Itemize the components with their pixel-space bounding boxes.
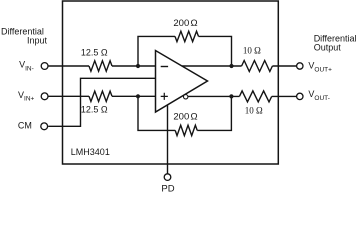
svg-text:VIN-: VIN- (19, 60, 34, 73)
svg-text:LMH3401: LMH3401 (71, 147, 110, 157)
svg-text:VOUT-: VOUT- (308, 89, 330, 102)
svg-text:12.5 Ω: 12.5 Ω (81, 48, 108, 58)
wire VIN+ input to R2 (48, 95, 89, 97)
svg-text:PD: PD (161, 183, 174, 194)
resistor R3 200 ohm (upper feedback) (175, 31, 199, 41)
wire VIN- input to R1 (48, 65, 89, 67)
svg-text:CM: CM (18, 120, 32, 130)
op-amp U1 fully differential amplifier triangle (156, 51, 208, 113)
resistor R2 12.5 ohm (lower input) (89, 91, 112, 101)
svg-text:VOUT+: VOUT+ (308, 61, 332, 74)
svg-text:VIN+: VIN+ (18, 90, 35, 103)
terminal VOUT+ (297, 63, 303, 69)
terminal CM (41, 123, 48, 130)
junction node lower-right (output / feedback) (229, 94, 233, 98)
wire upper feedback loop left and right legs (138, 36, 232, 66)
terminal VIN+ (41, 93, 48, 100)
svg-text:10 Ω: 10 Ω (243, 45, 261, 55)
svg-text:Output: Output (314, 43, 342, 53)
wire R2 to op-amp non-inverting input (112, 95, 156, 97)
op-amp inverting input minus sign (161, 66, 168, 68)
junction node upper-left (R1 / feedback) (136, 64, 140, 68)
junction node lower-left (R2 / feedback) (136, 94, 140, 98)
op-amp non-inverting input plus sign (161, 93, 168, 100)
op-amp inverting output bubble (184, 95, 188, 99)
wire op-amp upper output to R5 (182, 65, 242, 67)
terminal VOUT- (297, 93, 303, 99)
svg-text:10 Ω: 10 Ω (245, 106, 263, 116)
svg-text:Input: Input (27, 36, 48, 46)
wire R1 to op-amp inverting input (112, 65, 156, 67)
resistor R5 10 ohm (upper output) (242, 61, 273, 72)
wire CM to op-amp common-mode input (48, 78, 155, 126)
svg-text:200Ω: 200Ω (173, 18, 197, 29)
terminal PD (164, 174, 171, 181)
junction node upper-right (output / feedback) (229, 64, 233, 68)
wire lower feedback loop left and right legs (138, 96, 231, 130)
resistor R4 200 ohm (lower feedback) (175, 125, 197, 135)
wire op-amp lower output (from bubble) to R6 (188, 95, 240, 97)
svg-text:200Ω: 200Ω (173, 112, 197, 123)
terminal VIN- (41, 63, 48, 70)
resistor R1 12.5 ohm (upper input) (89, 61, 112, 71)
resistor R6 10 ohm (lower output) (239, 91, 271, 102)
wire PD pin from op-amp bottom to PD terminal (167, 105, 169, 174)
IC boundary box LMH3401 (63, 1, 279, 164)
wire R5 to VOUT+ terminal (272, 65, 296, 67)
svg-text:12.5 Ω: 12.5 Ω (81, 105, 108, 115)
wire R6 to VOUT- terminal (272, 95, 297, 97)
